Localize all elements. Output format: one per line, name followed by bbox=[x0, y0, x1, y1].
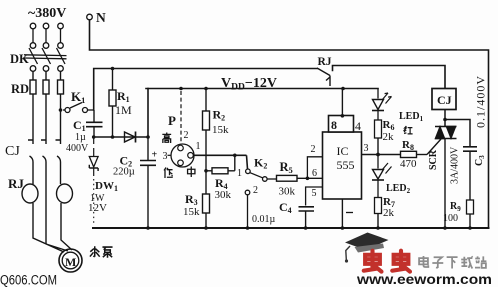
resistor R2 bbox=[203, 89, 210, 195]
capacitor C2 bbox=[140, 137, 156, 228]
svg-text:470: 470 bbox=[400, 158, 417, 170]
svg-text:220µ: 220µ bbox=[113, 167, 135, 178]
wire pin1 down bbox=[341, 199, 343, 228]
svg-text:SCR: SCR bbox=[428, 149, 439, 170]
LED1 bbox=[372, 89, 392, 121]
svg-text:VDD−12V: VDD−12V bbox=[221, 76, 277, 93]
label 水泵 (water pump) bbox=[90, 246, 113, 258]
svg-text:3: 3 bbox=[364, 143, 369, 154]
svg-text:2: 2 bbox=[253, 185, 258, 196]
resistor R4 bbox=[206, 155, 235, 174]
label 高 (high) bbox=[162, 133, 171, 144]
wire pin3 out bbox=[362, 154, 379, 156]
svg-text:+: + bbox=[152, 150, 158, 161]
svg-text:R1: R1 bbox=[117, 89, 130, 104]
contactor coil CJ bbox=[432, 89, 456, 110]
triac SCR bbox=[427, 127, 457, 229]
svg-text:R3: R3 bbox=[185, 192, 198, 207]
svg-text:R5: R5 bbox=[280, 160, 293, 175]
svg-text:CJ: CJ bbox=[437, 93, 452, 107]
svg-text:8: 8 bbox=[331, 118, 337, 132]
svg-text:3A/400V: 3A/400V bbox=[450, 146, 461, 184]
LED2 bbox=[372, 155, 392, 198]
svg-text:0.1/400V: 0.1/400V bbox=[474, 75, 488, 128]
svg-text:400V: 400V bbox=[66, 143, 89, 154]
svg-text:1: 1 bbox=[196, 141, 201, 152]
svg-text:C1: C1 bbox=[73, 118, 86, 133]
svg-text:P: P bbox=[168, 113, 176, 128]
wire VDD riser to DC line bbox=[147, 89, 149, 138]
capacitor C3 snubber bbox=[463, 147, 477, 200]
svg-text:3: 3 bbox=[163, 151, 168, 162]
svg-text:30k: 30k bbox=[279, 186, 296, 198]
svg-text:LED2: LED2 bbox=[386, 183, 411, 195]
IC 555 bbox=[323, 116, 362, 200]
svg-text:C4: C4 bbox=[279, 200, 292, 215]
svg-text:DK: DK bbox=[10, 52, 29, 66]
svg-text:1: 1 bbox=[237, 168, 242, 179]
label 低 (low) bbox=[164, 168, 173, 179]
wire low-voltage feed line y68 bbox=[94, 69, 317, 111]
motor M bbox=[59, 249, 82, 272]
label 红 (red) bbox=[404, 126, 413, 134]
resistor R1 bbox=[109, 69, 116, 138]
svg-text:M: M bbox=[65, 255, 76, 269]
svg-text:R8: R8 bbox=[402, 139, 414, 152]
svg-text:5: 5 bbox=[312, 188, 317, 199]
svg-text:DW1: DW1 bbox=[95, 180, 118, 193]
svg-text:6: 6 bbox=[312, 168, 317, 179]
svg-text:~380V: ~380V bbox=[28, 6, 66, 21]
wire VDD bus bbox=[146, 88, 378, 90]
svg-text:C3: C3 bbox=[474, 155, 486, 166]
wire pin8/4 to VDD bbox=[341, 89, 343, 116]
svg-text:1M: 1M bbox=[115, 103, 132, 117]
svg-text:RJ: RJ bbox=[318, 56, 332, 68]
wire pin2 tie bbox=[307, 157, 322, 179]
svg-text:R2: R2 bbox=[213, 108, 226, 123]
node N terminal bbox=[87, 14, 93, 20]
wire RJ contact to CJ coil bbox=[333, 66, 446, 89]
resistor R8 bbox=[378, 154, 401, 156]
svg-text:N: N bbox=[96, 10, 106, 25]
watermark 虫虫 (red) bbox=[364, 251, 410, 272]
svg-text:IC: IC bbox=[337, 144, 349, 158]
svg-text:555: 555 bbox=[337, 158, 355, 172]
wire DC rectified line y137 bbox=[94, 136, 148, 138]
resistor R9 bbox=[467, 200, 474, 214]
resistor R3 bbox=[203, 194, 210, 213]
svg-text:RJ: RJ bbox=[8, 176, 24, 191]
svg-text:K1: K1 bbox=[71, 89, 85, 105]
svg-text:2: 2 bbox=[311, 144, 316, 155]
svg-text:30k: 30k bbox=[215, 189, 232, 201]
svg-text:2k: 2k bbox=[383, 131, 395, 143]
wire sensor pin1 to K2 bbox=[193, 155, 247, 169]
label 中 (middle) bbox=[188, 167, 195, 178]
svg-text:Q606.COM: Q606.COM bbox=[0, 273, 57, 287]
svg-text:12V: 12V bbox=[88, 202, 107, 214]
diode D bbox=[125, 132, 136, 143]
wire N line top bbox=[90, 20, 489, 228]
capacitor C1 bbox=[86, 110, 103, 137]
terminal circles 380V bbox=[30, 23, 63, 48]
svg-text:www.eeworm.com: www.eeworm.com bbox=[356, 272, 492, 287]
wire pin5 + capacitor C4 bbox=[306, 187, 323, 206]
svg-text:1µ: 1µ bbox=[75, 132, 86, 143]
resistor R5 bbox=[277, 175, 298, 181]
svg-text:2k: 2k bbox=[383, 207, 395, 219]
watermark graduation cap bbox=[345, 233, 389, 263]
svg-text:RD: RD bbox=[11, 82, 29, 96]
svg-text:4: 4 bbox=[355, 119, 361, 133]
watermark 电子下载站 (gray) bbox=[419, 256, 486, 268]
wire bottom ground bus bbox=[93, 227, 489, 229]
zener DW1 bbox=[89, 137, 98, 226]
svg-text:0.01µ: 0.01µ bbox=[252, 214, 276, 225]
svg-text:K2: K2 bbox=[254, 156, 267, 171]
svg-text:CJ: CJ bbox=[5, 144, 20, 159]
svg-text:2: 2 bbox=[184, 130, 189, 141]
svg-text:15k: 15k bbox=[212, 124, 229, 136]
svg-text:15k: 15k bbox=[183, 206, 200, 218]
svg-text:R9: R9 bbox=[450, 201, 461, 213]
svg-text:LED1: LED1 bbox=[399, 111, 424, 123]
